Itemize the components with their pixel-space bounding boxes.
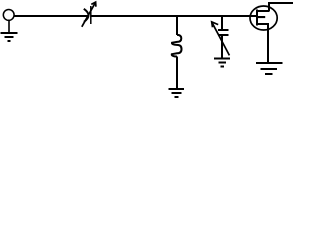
variable capacitor C1 straight plate [90, 6, 92, 24]
ground [1, 33, 18, 41]
ground [214, 59, 230, 67]
transistor Q1 envelope [250, 6, 277, 30]
inductor L1 [172, 35, 182, 57]
trimmer capacitor C2 plates [218, 30, 229, 35]
wire inductor to ground [176, 56, 178, 89]
wire node to trimmer capacitor [221, 16, 223, 30]
wire source to ground [8, 20, 10, 32]
wire drain to output [268, 2, 293, 11]
variable capacitor C1 curved plate [84, 9, 89, 22]
trimmer capacitor C2 adjustment arrow [212, 22, 230, 56]
transistor Q1 gate bar [256, 9, 258, 25]
source terminal circle [3, 10, 14, 21]
wire variable capacitor to FET gate [92, 15, 257, 17]
transistor Q1 drain lead [258, 10, 270, 12]
variable capacitor C1 adjustment arrow [82, 2, 96, 27]
wire node to inductor [176, 16, 178, 35]
wire source to ground [267, 24, 269, 63]
wire trimmer capacitor to ground [221, 36, 223, 58]
wire source to variable capacitor [14, 15, 88, 17]
ground [256, 63, 282, 74]
transistor Q1 source lead [258, 23, 269, 25]
transistor Q1 bulk arrow [258, 16, 266, 18]
ground [169, 89, 185, 97]
